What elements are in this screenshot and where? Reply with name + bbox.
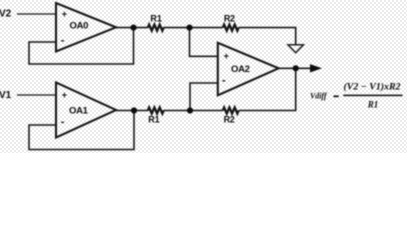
svg-text:R1: R1 [148,114,160,124]
svg-text:-: - [222,75,226,87]
svg-text:V2: V2 [0,9,12,20]
svg-text:-: - [61,35,65,47]
svg-text:Vdiff: Vdiff [310,90,328,100]
svg-text:OA1: OA1 [69,106,89,117]
svg-text:R1: R1 [150,14,162,24]
svg-text:-: - [61,116,65,128]
svg-text:R1: R1 [367,99,379,109]
svg-text:R2: R2 [224,114,235,124]
svg-text:V1: V1 [0,90,12,101]
svg-text:+: + [224,51,229,61]
svg-text:OA2: OA2 [231,64,250,75]
svg-text:OA0: OA0 [70,20,89,31]
svg-text:+: + [62,90,67,100]
svg-text:+: + [62,9,67,19]
svg-text:R2: R2 [224,14,235,24]
svg-text:(V2 − V1)xR2: (V2 − V1)xR2 [344,82,401,93]
